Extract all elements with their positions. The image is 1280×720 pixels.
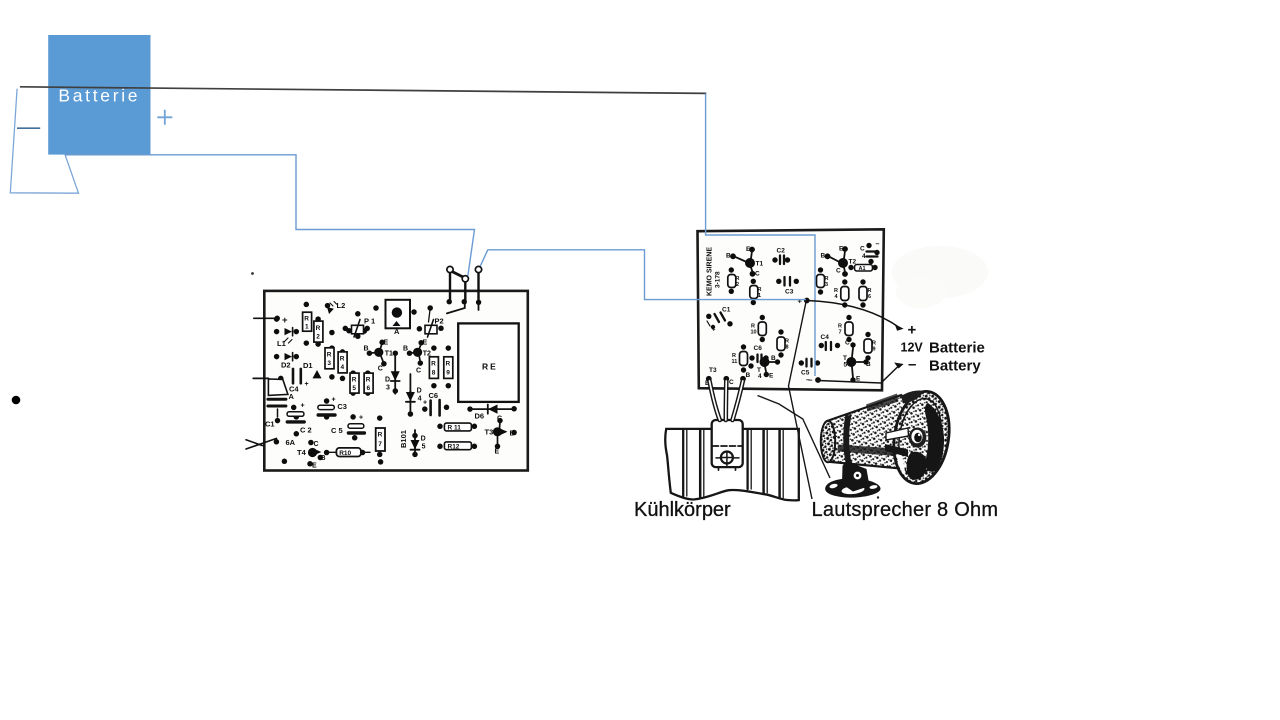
svg-text:R: R — [366, 377, 371, 384]
svg-text:R: R — [352, 377, 357, 384]
svg-text:+: + — [332, 397, 336, 404]
leader line to minus — [818, 367, 898, 384]
svg-text:E: E — [423, 340, 428, 347]
svg-text:E: E — [769, 373, 774, 380]
svg-text:R12: R12 — [448, 443, 460, 450]
transistor T4 (right pcb) — [757, 355, 776, 380]
capacitor C4 — [289, 369, 309, 394]
svg-text:Battery: Battery — [929, 357, 981, 374]
mounting strap over body — [843, 415, 856, 475]
svg-text:4: 4 — [758, 373, 762, 380]
svg-text:R: R — [378, 431, 383, 438]
svg-text:4: 4 — [341, 364, 345, 371]
svg-text:+: + — [712, 328, 716, 334]
svg-text:8: 8 — [786, 345, 789, 351]
svg-text:R: R — [446, 360, 451, 367]
svg-text:5: 5 — [352, 385, 356, 392]
svg-text:D: D — [421, 435, 426, 442]
svg-text:D: D — [417, 387, 422, 394]
resistor R8 (right pcb) — [777, 337, 789, 351]
svg-text:T1: T1 — [756, 261, 764, 268]
net label 6A — [246, 438, 296, 449]
heatsink fins — [683, 430, 783, 498]
capacitor C2 (right pcb) — [777, 248, 786, 265]
svg-text:B: B — [403, 345, 408, 352]
transistor T5 (right pcb) — [843, 340, 871, 383]
capacitor C6 (right pcb) — [754, 345, 763, 362]
resistor R6 (right pcb) — [859, 287, 872, 301]
svg-text:2: 2 — [736, 282, 739, 288]
battery B1 — [48, 35, 150, 155]
diode D3 — [385, 353, 400, 394]
svg-text:P 1: P 1 — [364, 317, 375, 326]
resistor R2 (right pcb) — [728, 275, 740, 289]
svg-text:C6: C6 — [754, 345, 763, 352]
capacitor C6 — [423, 391, 440, 415]
svg-text:B: B — [821, 253, 826, 260]
svg-text:C 2: C 2 — [300, 426, 312, 435]
right pcb pads — [706, 243, 880, 383]
svg-text:C: C — [416, 367, 421, 374]
svg-text:Lautsprecher 8 Ohm: Lautsprecher 8 Ohm — [812, 499, 999, 521]
svg-text:+: + — [798, 297, 803, 306]
svg-text:7: 7 — [378, 441, 382, 448]
svg-text:3: 3 — [327, 360, 331, 367]
resistor R11 — [444, 423, 471, 431]
diode D2 — [281, 353, 293, 370]
resistor R12 — [444, 442, 471, 450]
resistor A1 (right pcb horizontal) — [855, 265, 873, 273]
horn body cone — [826, 395, 903, 469]
base plate — [825, 478, 880, 497]
input line with plus — [254, 315, 288, 326]
svg-text:+: + — [305, 381, 309, 388]
capacitor C4 (right pcb mid) — [821, 334, 832, 350]
svg-text:C1: C1 — [722, 307, 731, 314]
plus pad label — [798, 297, 803, 306]
svg-text:D: D — [385, 376, 390, 383]
svg-text:3-178: 3-178 — [715, 271, 722, 288]
svg-text:B: B — [321, 455, 326, 462]
bell interior dark masses — [925, 403, 944, 472]
svg-text:12V: 12V — [901, 341, 924, 355]
diode D4 — [406, 374, 422, 414]
throat tube — [886, 428, 909, 440]
minus pad label — [808, 376, 813, 385]
wire: continuation down to right pcb minus pad — [706, 94, 815, 377]
svg-text:+: + — [908, 322, 917, 339]
resistor R3 — [325, 348, 334, 369]
svg-text:T4: T4 — [297, 448, 307, 457]
svg-text:C: C — [836, 268, 841, 275]
svg-text:C: C — [860, 246, 865, 253]
trimmer P1 — [352, 317, 376, 338]
svg-text:1: 1 — [305, 324, 309, 331]
pcb border — [264, 291, 528, 471]
LED L1 — [277, 328, 293, 348]
svg-text:R: R — [304, 316, 309, 323]
svg-text:+: + — [359, 415, 363, 422]
diode D6 — [470, 405, 514, 423]
driver — [909, 428, 927, 448]
transistor T4 — [297, 441, 326, 470]
svg-text:E: E — [746, 246, 751, 253]
diode D5 — [411, 430, 426, 456]
node A flag — [253, 378, 294, 401]
svg-text:KEMO SIRENE: KEMO SIRENE — [707, 247, 714, 296]
IC B101 — [399, 430, 408, 448]
svg-text:C4: C4 — [821, 334, 830, 341]
resistor R5 — [350, 373, 359, 393]
resistor R4 (right pcb) — [834, 287, 849, 301]
minus terminal label — [17, 127, 40, 129]
resistor R9 — [444, 357, 453, 379]
pcb border — [698, 229, 884, 390]
resistor R7 — [376, 428, 385, 451]
resistor R2 — [314, 321, 323, 342]
transistor T3 — [485, 422, 515, 456]
svg-text:T1: T1 — [385, 350, 393, 357]
svg-text:C6: C6 — [429, 391, 439, 400]
diode D1 — [303, 361, 322, 378]
svg-text:7: 7 — [839, 330, 842, 336]
LED L2 — [327, 301, 345, 314]
body shading bands — [838, 445, 897, 457]
label Lautsprecher — [812, 496, 999, 521]
capacitor C3 — [318, 397, 347, 416]
resistor R6 — [364, 373, 373, 393]
svg-text:11: 11 — [732, 359, 738, 365]
resistor R7 (right pcb) — [838, 322, 853, 336]
svg-text:C 5: C 5 — [331, 426, 343, 435]
svg-text:8: 8 — [432, 369, 436, 376]
svg-text:+: + — [301, 403, 305, 410]
transistor clamp on heatsink — [712, 420, 743, 470]
svg-text:1: 1 — [758, 293, 761, 299]
svg-text:E: E — [384, 340, 389, 347]
svg-text:B101: B101 — [399, 430, 408, 448]
plus terminal label — [157, 110, 172, 125]
horn bell — [888, 387, 956, 487]
svg-text:10: 10 — [751, 330, 757, 336]
speck — [251, 272, 254, 275]
svg-text:R 11: R 11 — [448, 425, 462, 432]
transistor T1 — [364, 340, 393, 373]
svg-text:R10: R10 — [339, 450, 351, 457]
heatsink body outline — [665, 429, 798, 500]
svg-text:RE: RE — [482, 362, 498, 372]
svg-text:A: A — [289, 392, 295, 401]
svg-text:3: 3 — [386, 384, 390, 391]
svg-text:A: A — [394, 327, 400, 336]
svg-text:–: – — [876, 241, 880, 248]
svg-text:2: 2 — [316, 334, 320, 341]
transistor T3 location (right pcb) — [705, 367, 751, 387]
rear cap — [821, 421, 835, 463]
switch S1 terminals and wires — [447, 266, 482, 313]
capacitor C2 — [287, 403, 312, 435]
svg-text:E: E — [839, 246, 844, 253]
resistor R4 — [338, 352, 347, 373]
svg-text:B: B — [726, 253, 731, 260]
resistor R1 — [303, 312, 312, 331]
svg-text:+: + — [282, 315, 288, 326]
resistor R10 — [328, 448, 370, 457]
wire: battery positive to left pcb switch terminal — [65, 155, 475, 277]
svg-text:C1: C1 — [265, 420, 275, 429]
svg-text:6: 6 — [367, 385, 371, 392]
svg-text:R: R — [431, 360, 436, 367]
svg-text:R: R — [316, 325, 321, 332]
svg-text:Batterie: Batterie — [929, 340, 985, 357]
solder pads — [274, 299, 517, 467]
svg-text:B: B — [771, 355, 776, 362]
label Kühlkörper — [634, 499, 731, 521]
battery clip sketch (freeform trapezoid) — [10, 89, 78, 194]
resistor R9 (right pcb) — [864, 339, 876, 353]
svg-text:6: 6 — [868, 294, 871, 300]
resistor R3 (right pcb) — [817, 275, 829, 289]
resistor R10 (right pcb) — [751, 322, 767, 336]
white crescent bottom-left of bell — [897, 450, 906, 475]
wire: left pcb switch terminal to right pcb plus pad — [479, 250, 806, 300]
svg-text:6A: 6A — [286, 438, 296, 447]
svg-text:–: – — [908, 356, 916, 373]
svg-text:Kühlkörper: Kühlkörper — [634, 499, 731, 521]
svg-text:C: C — [378, 365, 383, 372]
bracket pivot knob — [853, 471, 863, 481]
scan noise smudge — [892, 246, 988, 308]
svg-text:C3: C3 — [337, 402, 347, 411]
svg-text:C3: C3 — [785, 289, 794, 296]
svg-text:T3: T3 — [485, 428, 494, 437]
svg-text:C: C — [314, 441, 319, 448]
capacitor C5 (right pcb) — [801, 359, 812, 384]
svg-text:C: C — [845, 340, 850, 347]
svg-text:+: + — [423, 400, 427, 407]
capacitor C5 — [331, 415, 364, 436]
mounting screw — [716, 457, 739, 459]
svg-text:C: C — [755, 271, 760, 278]
silkscreen KEMO SIRENE 3-178 — [707, 247, 722, 296]
svg-text:B: B — [364, 345, 369, 352]
svg-text:9: 9 — [873, 347, 876, 353]
bullet point — [12, 396, 21, 405]
12V battery annotation — [807, 301, 985, 384]
resistor R11 (right pcb) — [732, 352, 748, 366]
svg-text:E: E — [312, 463, 317, 470]
svg-text:–: – — [808, 376, 813, 385]
capacitor C1 — [265, 399, 286, 428]
trimmer P2 — [425, 308, 444, 338]
bracket mass — [842, 461, 870, 492]
capacitor C4 (right pcb top) — [860, 241, 880, 260]
switch terminal circles redrawn over wires — [447, 266, 482, 282]
svg-text:E: E — [495, 449, 500, 456]
svg-text:R: R — [327, 351, 332, 358]
svg-text:B: B — [510, 431, 515, 438]
svg-text:C: C — [729, 379, 734, 386]
svg-text:3: 3 — [825, 282, 828, 288]
wire: battery negative line (black) to right side — [20, 87, 706, 94]
relay RE — [458, 323, 519, 402]
capacitor C3 (right pcb) — [785, 277, 794, 296]
svg-text:Batterie: Batterie — [58, 86, 140, 106]
svg-text:D6: D6 — [475, 411, 485, 420]
svg-text:C2: C2 — [777, 248, 786, 255]
svg-text:T3: T3 — [709, 367, 717, 374]
svg-text:L2: L2 — [337, 301, 346, 310]
svg-text:5: 5 — [422, 443, 426, 450]
svg-text:L1: L1 — [277, 339, 286, 348]
transistor T2 (right pcb) — [821, 246, 857, 275]
transistor T2 — [403, 340, 431, 375]
transistor T3 wires to pcb — [710, 381, 743, 420]
transducer TA — [386, 300, 411, 336]
svg-text:D2: D2 — [281, 361, 291, 370]
resistor R1 (right pcb) — [750, 286, 762, 300]
transistor T1 (right pcb) — [726, 246, 763, 278]
resistor R8 — [429, 357, 438, 379]
callout leader lines pcb to heatsink/speaker — [758, 302, 831, 499]
svg-text:4: 4 — [418, 395, 422, 402]
svg-text:A1: A1 — [859, 266, 866, 272]
capacitor C1 (right pcb) — [707, 307, 731, 334]
svg-text:D1: D1 — [303, 361, 313, 370]
svg-text:B: B — [746, 372, 751, 379]
svg-text:P2: P2 — [435, 317, 444, 326]
leader line to plus — [807, 301, 897, 327]
svg-text:9: 9 — [446, 369, 450, 376]
svg-text:5: 5 — [844, 362, 848, 369]
svg-text:R: R — [340, 356, 345, 363]
svg-text:B: B — [866, 361, 871, 368]
